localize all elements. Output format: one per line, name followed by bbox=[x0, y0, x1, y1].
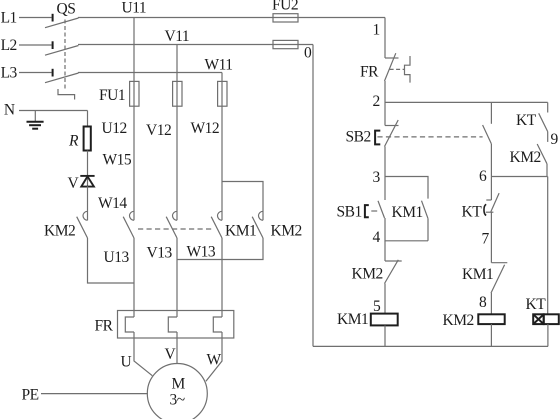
svg-text:V13: V13 bbox=[147, 245, 173, 262]
svg-text:L2: L2 bbox=[1, 37, 17, 54]
wire KM2NO to node 6 bbox=[546, 164, 548, 177]
svg-text:FR: FR bbox=[360, 64, 379, 81]
wire R to V bbox=[87, 151, 89, 175]
wire bottom rail bbox=[313, 345, 548, 347]
svg-text:M: M bbox=[172, 376, 186, 393]
wire N bbox=[19, 110, 88, 112]
svg-text:SB2: SB2 bbox=[346, 129, 371, 146]
svg-text:SB1: SB1 bbox=[337, 204, 362, 221]
coil KM1 bbox=[371, 314, 398, 326]
wire V12 bbox=[176, 82, 178, 221]
svg-text:KM2: KM2 bbox=[352, 266, 383, 283]
contactor KM1 pole V bbox=[166, 211, 177, 238]
svg-text:KM1: KM1 bbox=[392, 204, 423, 221]
pushbutton SB1 NO bbox=[365, 201, 385, 218]
wire node 7 bbox=[490, 212, 492, 263]
FR heater U bbox=[125, 317, 134, 332]
svg-text:FU2: FU2 bbox=[272, 0, 298, 14]
wire node 2 bus bbox=[385, 101, 548, 103]
wire W12 bbox=[221, 82, 223, 221]
svg-text:2: 2 bbox=[373, 93, 380, 110]
wire SB2NO to node 6 bbox=[490, 144, 492, 200]
QS linkage dashed bbox=[58, 20, 75, 100]
wire node 6 bbox=[491, 176, 547, 178]
wire node6 to KT coil bbox=[547, 177, 549, 315]
svg-text:KT: KT bbox=[516, 112, 537, 129]
svg-text:U11: U11 bbox=[122, 0, 147, 17]
contact KT NO bbox=[539, 113, 548, 131]
diode V bbox=[80, 175, 94, 187]
contact KM2 NC interlock bbox=[385, 260, 402, 284]
svg-text:N: N bbox=[4, 102, 15, 119]
wire to KM1 coil bbox=[384, 284, 386, 314]
svg-text:FU1: FU1 bbox=[99, 87, 125, 104]
switch QS pole 1 bbox=[45, 14, 79, 28]
wire line 1 vertical bbox=[384, 18, 386, 59]
svg-text:V11: V11 bbox=[165, 28, 190, 45]
wire KM1 coil to rail bbox=[384, 325, 386, 346]
wire 9 bbox=[547, 132, 549, 142]
FR heater V bbox=[168, 317, 177, 332]
contact SB2 NO bbox=[483, 102, 492, 143]
wire W13 bbox=[221, 238, 223, 317]
wire W to motor bbox=[206, 332, 222, 381]
wire KM2 brake to U13 bbox=[88, 238, 135, 283]
svg-text:L3: L3 bbox=[1, 65, 18, 82]
wire L3 to W11 bbox=[78, 72, 222, 74]
wire SB2 to node 3 bbox=[384, 147, 386, 201]
svg-text:U13: U13 bbox=[104, 249, 130, 266]
wire line 0 vertical bbox=[312, 45, 314, 347]
thermal contact FR bbox=[385, 53, 411, 82]
svg-text:QS: QS bbox=[57, 1, 76, 18]
svg-text:1: 1 bbox=[373, 22, 380, 39]
svg-text:7: 7 bbox=[482, 231, 490, 248]
wire N branch down bbox=[87, 111, 89, 127]
svg-text:R: R bbox=[68, 133, 79, 150]
motor M bbox=[147, 364, 207, 419]
fuse FU1a bbox=[130, 81, 139, 106]
wire KM2 right to tie bbox=[177, 238, 263, 260]
wire KM2 coil to rail bbox=[490, 324, 492, 346]
svg-text:U12: U12 bbox=[102, 120, 127, 137]
switch QS pole 3 bbox=[45, 69, 79, 83]
switch QS pole 2 bbox=[45, 41, 79, 55]
wire U13 bbox=[133, 238, 135, 317]
contact KT delayed NC bbox=[484, 193, 499, 215]
wire PE bbox=[41, 393, 148, 395]
SB2 link dashed bbox=[377, 136, 482, 138]
ground bbox=[27, 111, 44, 129]
wire node2 right corner bbox=[547, 102, 549, 112]
svg-text:V: V bbox=[68, 175, 80, 192]
resistor R bbox=[84, 127, 91, 151]
svg-text:FR: FR bbox=[95, 318, 114, 335]
svg-text:PE: PE bbox=[22, 387, 39, 404]
fuse FU1c bbox=[218, 81, 227, 106]
contactor KM1 pole U bbox=[123, 211, 134, 238]
wire node 3 branch bbox=[385, 177, 428, 199]
svg-text:V: V bbox=[165, 346, 177, 363]
svg-text:W12: W12 bbox=[191, 120, 220, 137]
FR heater W bbox=[213, 317, 222, 332]
coil KM2 bbox=[478, 314, 504, 324]
wire V to KM2 bbox=[87, 186, 89, 220]
svg-text:KT: KT bbox=[526, 296, 547, 313]
svg-text:W11: W11 bbox=[205, 57, 233, 74]
wire V11 bbox=[176, 45, 178, 82]
contactor KM2 brake contact bbox=[77, 211, 88, 238]
fuse FU1b bbox=[173, 81, 182, 106]
svg-text:L1: L1 bbox=[1, 10, 17, 27]
svg-text:W13: W13 bbox=[187, 244, 216, 261]
svg-text:8: 8 bbox=[479, 294, 487, 311]
svg-text:5: 5 bbox=[373, 298, 381, 315]
KM1 mechanical link dashed bbox=[138, 228, 213, 230]
wire L1 lead bbox=[19, 17, 52, 19]
wire node4 down bbox=[384, 241, 386, 261]
svg-text:KM1: KM1 bbox=[462, 266, 493, 283]
wire U11 bbox=[133, 18, 135, 82]
fuse FU2b bbox=[273, 40, 298, 48]
contactor KM2 right contact bbox=[252, 211, 263, 238]
wire W11 bbox=[221, 73, 223, 82]
wire L2 to line 0 bbox=[78, 44, 313, 46]
svg-text:W15: W15 bbox=[103, 152, 132, 169]
contact KM1 NC interlock bbox=[491, 263, 507, 293]
thermal relay FR block bbox=[118, 311, 234, 339]
wire U12 bbox=[133, 82, 135, 221]
svg-text:0: 0 bbox=[304, 45, 312, 62]
coil KT bbox=[533, 314, 559, 324]
wire V to motor bbox=[176, 332, 178, 364]
wire L1 to line 1 bbox=[78, 17, 385, 19]
svg-text:KM2: KM2 bbox=[44, 223, 75, 240]
svg-text:3: 3 bbox=[373, 169, 381, 186]
wire KT coil to rail bbox=[547, 324, 549, 346]
contact KM1 aux NO bbox=[422, 201, 429, 241]
svg-text:KM2: KM2 bbox=[510, 149, 541, 166]
svg-text:KT: KT bbox=[462, 204, 483, 221]
svg-text:KM1: KM1 bbox=[337, 311, 368, 328]
wire V13 bbox=[176, 238, 178, 317]
contactor KM1 pole W bbox=[211, 211, 222, 238]
wire L2 lead bbox=[19, 44, 52, 46]
svg-text:9: 9 bbox=[551, 131, 559, 148]
wire to KM2 coil bbox=[490, 293, 492, 314]
svg-text:U: U bbox=[121, 354, 132, 371]
svg-text:3~: 3~ bbox=[170, 392, 185, 409]
svg-text:W: W bbox=[207, 352, 222, 369]
svg-text:KM2: KM2 bbox=[271, 223, 302, 240]
wire L3 lead bbox=[19, 72, 52, 74]
svg-text:KM2: KM2 bbox=[443, 312, 474, 329]
wire node 4 bbox=[385, 218, 428, 241]
wire U to motor bbox=[134, 332, 152, 376]
svg-text:6: 6 bbox=[479, 168, 487, 185]
svg-text:4: 4 bbox=[373, 229, 381, 246]
fuse FU2a bbox=[273, 14, 298, 22]
wire W12 branch to KM2 contact bbox=[222, 182, 263, 221]
svg-text:V12: V12 bbox=[146, 122, 171, 139]
svg-text:W14: W14 bbox=[98, 195, 127, 212]
contact KM2 NO bbox=[537, 144, 547, 164]
wire FR to node 2 bbox=[384, 81, 386, 126]
svg-text:KM1: KM1 bbox=[225, 223, 256, 240]
pushbutton SB2 NC bbox=[375, 120, 398, 147]
